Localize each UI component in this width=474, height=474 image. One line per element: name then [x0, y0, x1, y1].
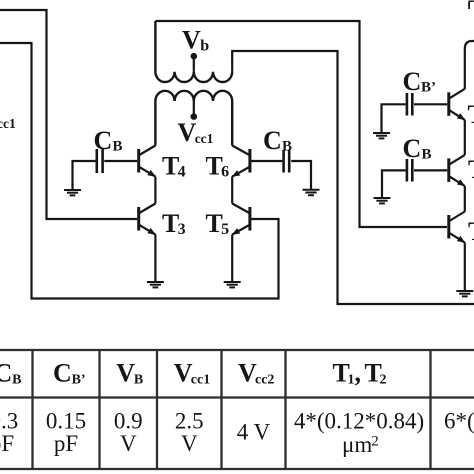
label T4: [162, 152, 186, 181]
transistor T1 (middle right, label cut): [449, 155, 466, 186]
svg-text:T: T: [468, 100, 474, 129]
table: parameter table grid: [0, 350, 474, 469]
transistor T5: [232, 204, 250, 235]
svg-text:C: C: [263, 126, 282, 155]
svg-text:0.9: 0.9: [114, 409, 143, 434]
label C_B (at T6 base): [263, 126, 292, 155]
transistor T3: [139, 204, 156, 235]
svg-text:4*(0.12*0.84): 4*(0.12*0.84): [294, 409, 424, 434]
svg-text:B: B: [12, 373, 21, 388]
svg-text:cc1: cc1: [0, 116, 16, 131]
wire: T6 emitter to T5 collector: [231, 177, 233, 204]
label C_B': [403, 67, 437, 96]
svg-text:T: T: [468, 155, 474, 184]
wire: T1 emitter to bottom transistor collector: [464, 186, 466, 212]
svg-text:,: ,: [355, 359, 362, 388]
svg-text:2.5: 2.5: [175, 409, 204, 434]
capacitor C_B' (at T2 base): [407, 93, 412, 116]
label V_cc1 (cut at left edge): [0, 116, 16, 131]
label T5: [206, 209, 230, 238]
svg-text:V: V: [182, 26, 201, 55]
svg-text:pF: pF: [0, 431, 14, 456]
svg-text:C: C: [94, 126, 113, 155]
capacitor C_B (at T1 base): [407, 159, 412, 182]
wire: C_B' to ground: [382, 104, 406, 132]
node V_b: center tap stem and dot: [191, 53, 198, 72]
wire: outer feedback from left edge to T3 base: [0, 10, 137, 219]
svg-text:b: b: [200, 37, 209, 54]
svg-text:B’: B’: [72, 373, 86, 388]
wire: T2 collector up and out to right edge: [465, 41, 474, 89]
wire: right C_B to ground: [382, 170, 406, 197]
wire: inner feedback from left edge down, along bottom to T5 base: [0, 43, 279, 299]
wire: from top winding right end down the middle to bottom-right output rail: [232, 51, 474, 304]
svg-text:μm: μm: [342, 432, 372, 457]
capacitor C_B (left, at T4 base): [97, 149, 103, 173]
ground at left C_B: [64, 190, 81, 195]
label T2 (cut at right edge): [468, 100, 474, 129]
transistor T6: [232, 146, 250, 177]
svg-text:6: 6: [221, 164, 229, 181]
wire: T2 base to capacitor: [414, 103, 447, 105]
svg-text:B: B: [422, 147, 432, 163]
svg-text:5: 5: [221, 221, 229, 238]
capacitor C_B (at T6 base): [284, 150, 290, 173]
table: header row labels: [0, 359, 387, 388]
wire: left C_B to ground: [73, 161, 96, 190]
label T3: [162, 209, 186, 238]
svg-text:4: 4: [178, 164, 186, 181]
svg-text:B: B: [282, 139, 292, 155]
inductor: transformer bottom winding (V_cc1 side): [155, 91, 232, 146]
svg-text:cc1: cc1: [191, 373, 210, 388]
wire: bottom-right emitter to ground: [464, 243, 466, 291]
label at top right corner (cut): [468, 0, 474, 24]
svg-text:C: C: [0, 359, 12, 388]
ground at C_B': [373, 133, 390, 138]
svg-text:T: T: [468, 217, 474, 246]
svg-text:B: B: [134, 373, 143, 388]
svg-text:1: 1: [348, 373, 355, 388]
wire: T3 emitter to ground: [154, 235, 156, 283]
wire: T4 emitter to T3 collector: [154, 177, 156, 204]
svg-text:C: C: [53, 359, 72, 388]
svg-text:3: 3: [178, 221, 186, 238]
svg-text:2: 2: [371, 434, 379, 450]
wire: T6-base C_B to ground: [291, 161, 311, 189]
node V_cc1: center tap stem and dot: [191, 101, 198, 120]
ground under T3: [147, 282, 164, 287]
wire: T4 base to capacitor: [104, 160, 137, 162]
label V_b: [182, 26, 209, 55]
ground under T5: [224, 282, 241, 287]
svg-text:B: B: [113, 139, 123, 155]
wire: T5 emitter to ground: [231, 235, 233, 283]
svg-text:V: V: [120, 431, 137, 456]
svg-text:6*(0.12*0.84): 6*(0.12*0.84): [444, 409, 474, 434]
svg-text:C: C: [403, 134, 422, 163]
ground under bottom-right transistor: [456, 291, 473, 296]
svg-text:C: C: [403, 67, 422, 96]
wire: T6 base to capacitor: [251, 160, 282, 162]
wire: T1 base to capacitor: [414, 169, 447, 171]
label C_B (left): [94, 126, 123, 155]
svg-text:V: V: [116, 359, 135, 388]
label T1 (cut at right edge): [468, 155, 474, 184]
transistor T2 (top right, label cut): [449, 89, 466, 120]
svg-text:4 V: 4 V: [237, 420, 271, 445]
wire: T2 emitter to T1 collector: [464, 120, 466, 155]
svg-text:V: V: [178, 118, 197, 147]
svg-text:cc2: cc2: [255, 373, 274, 388]
svg-text:cc1: cc1: [195, 131, 214, 146]
inductor: transformer top winding (V_b side): [155, 21, 232, 82]
transistor T4: [139, 146, 156, 177]
table: value row: [0, 409, 474, 458]
label V_cc1: [178, 118, 214, 147]
label C_B (right): [403, 134, 432, 163]
label bottom-right transistor (cut at right edge): [468, 217, 474, 246]
label T6: [206, 152, 230, 181]
ground at right C_B: [374, 198, 391, 203]
svg-text:V: V: [181, 431, 198, 456]
svg-text:B’: B’: [421, 80, 436, 96]
transistor (bottom right, label cut): [449, 212, 466, 243]
wire: top rail from transformer to right, down and to bottom-right transistor base: [155, 21, 447, 227]
svg-text:2: 2: [380, 373, 387, 388]
svg-text:pF: pF: [54, 431, 78, 456]
svg-text:0.3: 0.3: [0, 409, 18, 434]
ground at T6-base C_B: [303, 190, 320, 195]
svg-text:0.15: 0.15: [46, 409, 86, 434]
